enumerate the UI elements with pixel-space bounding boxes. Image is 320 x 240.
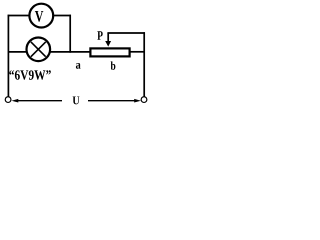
- potentiometer R1 body: [90, 48, 129, 56]
- wire top-left horizontal to voltmeter: [8, 15, 30, 17]
- potentiometer wiper stem: [107, 33, 109, 42]
- voltmeter U1 circle: [29, 4, 53, 28]
- wire voltmeter right horizontal: [54, 15, 72, 17]
- U arrow right segment: [88, 100, 136, 102]
- wire pot right connector: [130, 51, 146, 53]
- U arrow left segment: [17, 100, 62, 102]
- wire wiper top horizontal: [107, 32, 145, 34]
- lamp L1 circle: [27, 38, 51, 62]
- voltmeter label V: [35, 11, 43, 22]
- U arrow left head: [12, 99, 19, 103]
- U arrow right head: [134, 99, 141, 103]
- wire main horizontal: [8, 51, 90, 53]
- wire left vertical: [7, 15, 9, 97]
- lamp X stroke 2: [31, 42, 46, 57]
- wire right vertical: [143, 32, 145, 96]
- terminal right: [141, 97, 147, 103]
- label a: [76, 63, 81, 69]
- terminal left: [5, 97, 11, 103]
- potentiometer wiper arrowhead: [105, 41, 111, 47]
- lamp rating text "6V9W": [9, 70, 51, 80]
- label U: [73, 96, 80, 104]
- label P: [97, 31, 102, 40]
- wire V-loop right vertical: [69, 15, 71, 53]
- label b: [111, 61, 116, 69]
- lamp X stroke 1: [31, 42, 46, 57]
